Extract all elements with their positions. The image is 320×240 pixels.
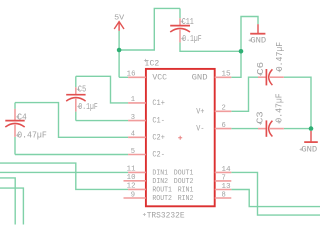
pin 11 DIN1 stub: [128, 171, 146, 173]
supply symbol 5V arrow: [114, 22, 124, 31]
wire second net from left edge down off bottom: [0, 188, 23, 224]
svg-text:C1+: C1+: [152, 100, 165, 108]
wire pin 16 VCC horizontal: [119, 76, 128, 78]
svg-text:0.47µF: 0.47µF: [274, 42, 285, 71]
wire 5V stem down to pin 16 row: [118, 31, 120, 78]
svg-text:C11: C11: [182, 17, 194, 27]
origin cross GND right: [300, 148, 303, 151]
svg-text:C4: C4: [17, 112, 27, 122]
pin 10 DIN2 stub: [124, 180, 146, 182]
svg-text:V+: V+: [196, 108, 204, 116]
svg-text:0.47µF: 0.47µF: [273, 93, 284, 122]
svg-text:C3: C3: [255, 111, 266, 124]
pin 15 GND stub: [215, 76, 232, 78]
label C3 (rotated): [255, 111, 266, 125]
svg-text:13: 13: [221, 183, 230, 191]
svg-text:V-: V-: [196, 126, 204, 134]
svg-text:RIN2: RIN2: [178, 195, 194, 203]
value C3 0.47uF (rotated): [273, 93, 284, 123]
svg-text:GND: GND: [192, 74, 208, 82]
wire C5 top lead: [75, 76, 77, 87]
wire C3 right to GND junction: [284, 128, 311, 130]
svg-text:15: 15: [221, 71, 230, 79]
wire C11 top lead: [179, 8, 181, 18]
wire C6 right to GND junction: [284, 77, 311, 128]
pin 3 C1- stub: [128, 120, 146, 122]
origin cross GND top right: [249, 39, 252, 42]
svg-text:DOUT1: DOUT1: [174, 169, 194, 177]
part origin cross IC2: [178, 136, 182, 140]
origin cross C4 value: [16, 134, 19, 137]
svg-text:11: 11: [127, 166, 136, 174]
svg-text:VCC: VCC: [152, 74, 167, 82]
svg-text:4: 4: [131, 131, 135, 139]
ground symbol GND top right: [250, 24, 265, 34]
wire C4 bottom to pin 5 C2-: [15, 154, 128, 156]
capacitor C4: [5, 109, 24, 137]
svg-text:6: 6: [222, 122, 226, 130]
wire C11 bottom to GND junction: [180, 42, 241, 51]
svg-text:14: 14: [221, 166, 230, 174]
wire C5 bottom to pin 3 C1-: [76, 120, 128, 122]
svg-text:C2-: C2-: [152, 152, 165, 160]
wire pin 6 V- to C3: [231, 128, 258, 130]
pin 9 ROUT2 stub: [124, 197, 146, 199]
origin cross C5 value: [77, 105, 80, 108]
wire RIN1 pin 13 to right edge: [231, 190, 320, 207]
pin 16 VCC stub: [128, 76, 146, 78]
wire pin 2 V+ up to C6: [231, 77, 258, 111]
svg-text:2: 2: [222, 105, 226, 113]
svg-text:C2+: C2+: [152, 134, 165, 142]
wire GND junction up and over to GND symbol: [241, 17, 258, 52]
capacitor C3: [258, 120, 284, 136]
svg-text:RIN1: RIN1: [178, 187, 194, 195]
pin 1 C1+ stub: [128, 102, 146, 104]
pin 13 RIN1 stub: [215, 189, 232, 191]
ground symbol GND right: [304, 131, 318, 142]
svg-text:0.1µF: 0.1µF: [182, 34, 201, 44]
svg-text:1: 1: [131, 96, 135, 104]
pin 2 V+ stub: [215, 110, 232, 112]
origin cross C11 name: [181, 20, 184, 23]
svg-text:8: 8: [222, 191, 226, 199]
wire DIN1 from left edge to pin 11: [0, 171, 128, 173]
IC IC2 box TRS3232E: [146, 69, 215, 206]
pin 5 C2- stub: [128, 154, 146, 156]
origin cross C4 name: [16, 115, 19, 118]
junction dot GND node right: [309, 126, 314, 131]
wire C5 bottom lead: [75, 112, 77, 121]
pin 7 DOUT2 stub: [215, 180, 232, 182]
svg-text:GND: GND: [250, 36, 266, 45]
svg-text:16: 16: [127, 71, 136, 79]
svg-text:3: 3: [131, 114, 135, 122]
capacitor C6: [258, 69, 284, 85]
capacitor C5: [66, 87, 85, 111]
svg-text:7: 7: [222, 174, 226, 182]
wire GND junction down to pin 15: [231, 51, 241, 77]
svg-text:C1-: C1-: [152, 118, 165, 126]
wire C4 bottom lead: [14, 137, 16, 155]
pin 8 RIN2 stub: [215, 197, 232, 199]
svg-text:C6: C6: [255, 61, 266, 74]
junction dot 5V node: [117, 48, 122, 53]
wire DOUT1 pin 14 to right edge: [231, 172, 320, 215]
value C6 0.47uF (rotated): [274, 42, 285, 72]
pin 14 DOUT1 stub: [215, 171, 232, 173]
pin 6 V- stub: [215, 128, 232, 130]
label C6 (rotated): [255, 61, 266, 76]
wire C4 top over to pin 4 C2+: [15, 103, 128, 138]
wire C4 top lead: [14, 103, 16, 109]
svg-text:10: 10: [127, 174, 136, 182]
svg-text:DOUT2: DOUT2: [174, 178, 194, 186]
capacitor C11: [170, 18, 190, 42]
svg-text:0.47µF: 0.47µF: [17, 131, 47, 141]
junction dot GND node top: [239, 49, 244, 54]
pin 4 C2+ stub: [128, 136, 146, 138]
wire C5 top over to pin 1 C1+: [76, 76, 128, 103]
svg-text:ROUT1: ROUT1: [152, 186, 172, 194]
svg-text:0.1µF: 0.1µF: [78, 102, 97, 112]
wire net from left edge down off bottom: [0, 178, 15, 225]
origin cross IC2 name: [144, 59, 147, 62]
svg-text:DIN2: DIN2: [152, 178, 168, 186]
svg-text:GND: GND: [301, 145, 317, 154]
origin cross C11 value: [181, 37, 184, 40]
svg-text:DIN1: DIN1: [152, 169, 168, 177]
svg-text:C5: C5: [78, 85, 87, 95]
origin cross C5 name: [77, 88, 80, 91]
svg-text:ROUT2: ROUT2: [152, 195, 172, 203]
pin 12 ROUT1 stub: [128, 188, 146, 190]
svg-text:5: 5: [131, 148, 135, 156]
svg-text:9: 9: [131, 191, 135, 199]
origin cross TRS3232E: [143, 213, 146, 216]
svg-text:IC2: IC2: [145, 60, 160, 68]
svg-text:5V: 5V: [114, 15, 125, 23]
svg-text:12: 12: [127, 183, 136, 191]
wire 5V junction over to C11 top: [119, 8, 180, 50]
svg-text:TRS3232E: TRS3232E: [147, 210, 185, 220]
wire ROUT1 from left edge to pin 12: [0, 163, 128, 189]
